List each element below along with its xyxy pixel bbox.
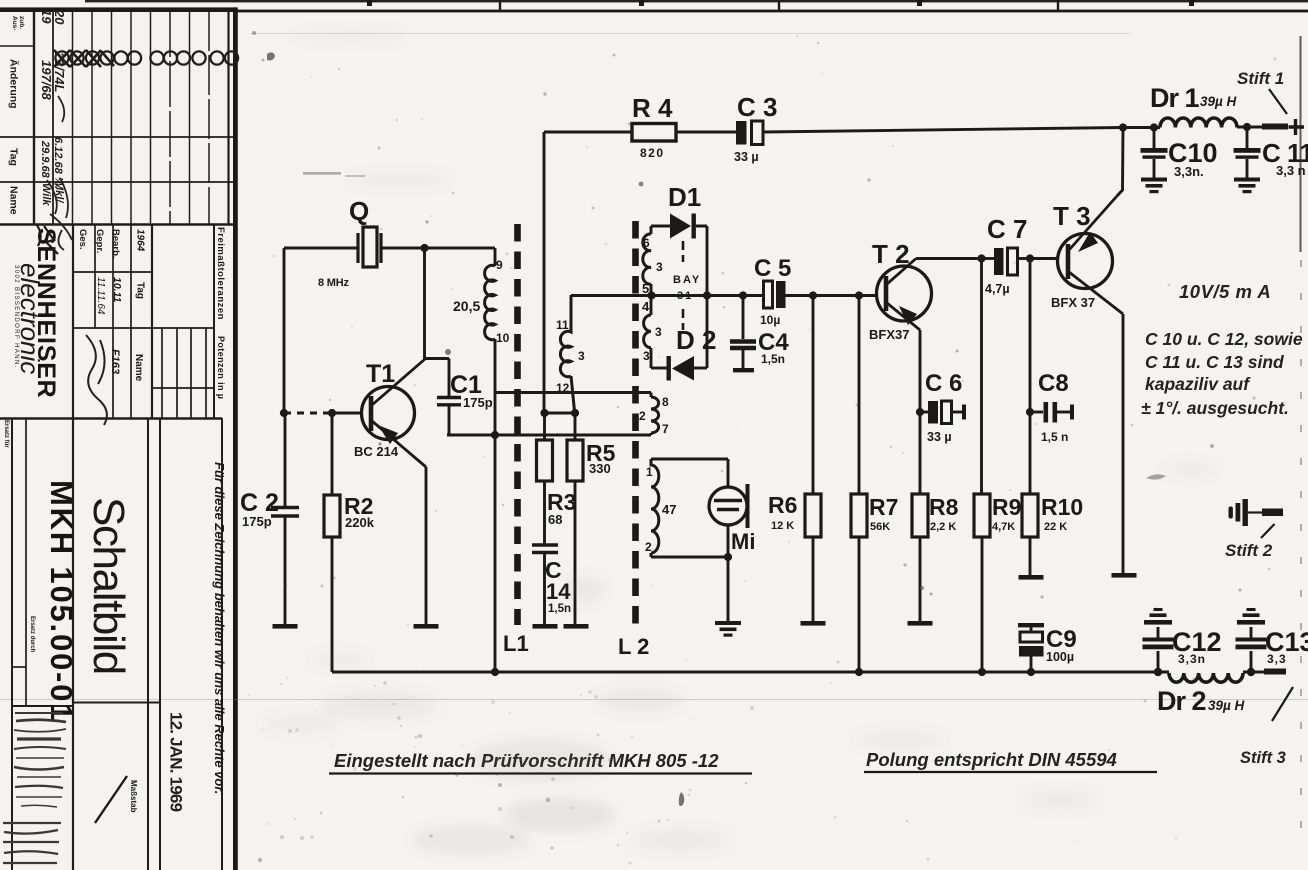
svg-text:197/68: 197/68 — [39, 60, 54, 101]
svg-text:D 2: D 2 — [676, 325, 716, 355]
capacitor C3 — [736, 121, 763, 145]
capacitor C7 — [981, 248, 1029, 275]
svg-text:3002 BISSENDORF HANN.: 3002 BISSENDORF HANN. — [13, 265, 19, 369]
svg-text:R10: R10 — [1041, 494, 1083, 520]
resistor R2 — [324, 413, 340, 672]
wire T3 collector to rail — [1117, 128, 1123, 197]
node R5 top — [571, 409, 579, 417]
svg-text:BFX37: BFX37 — [869, 327, 909, 342]
svg-text:1,5n: 1,5n — [548, 603, 571, 615]
svg-text:3: 3 — [655, 325, 662, 339]
svg-text:BC 214: BC 214 — [354, 444, 399, 459]
scribble area bottom-left — [3, 713, 66, 863]
svg-text:12. JAN. 1969: 12. JAN. 1969 — [167, 712, 186, 812]
svg-text:F163: F163 — [109, 349, 121, 374]
wire D1 to right post — [696, 226, 707, 368]
chassis bar R5 — [564, 624, 589, 629]
svg-text:Tag: Tag — [135, 282, 146, 299]
capacitor C12 — [1143, 608, 1174, 672]
svg-text:4,7µ: 4,7µ — [985, 282, 1010, 296]
svg-text:Stift 2: Stift 2 — [1225, 541, 1273, 560]
svg-text:Freimaßtoleranzen: Freimaßtoleranzen — [215, 227, 226, 320]
capacitor C2 — [271, 413, 299, 624]
L2 core — [632, 221, 639, 625]
resistor R3 — [537, 413, 553, 544]
svg-text:zub.: zub. — [18, 16, 25, 29]
node T3 collector rail — [1119, 123, 1127, 131]
svg-text:19: 19 — [39, 9, 54, 24]
L1 secondary coil 11-3-12 — [560, 295, 574, 411]
node C7 left — [977, 254, 985, 262]
tap segment — [650, 284, 653, 315]
svg-text:47: 47 — [662, 502, 676, 517]
resistor R9 — [974, 494, 990, 672]
svg-text:10V/5 m A: 10V/5 m A — [1179, 281, 1271, 302]
crystal Q — [358, 227, 381, 267]
capacitor C4 — [730, 295, 756, 368]
chassis bar C2 — [273, 624, 298, 629]
winding 6-3-5 column top wire — [650, 226, 653, 234]
wire C1 bottom — [447, 405, 651, 435]
svg-text:Gepr.: Gepr. — [94, 229, 105, 253]
svg-text:T1: T1 — [366, 360, 395, 388]
wire diode bottom — [651, 367, 667, 370]
chassis bar C14 — [533, 624, 558, 629]
winding 4-3-3 — [644, 315, 651, 368]
winding 1-2 (47) — [651, 459, 659, 557]
svg-text:Änderung: Änderung — [8, 59, 21, 109]
svg-text:R 4: R 4 — [632, 93, 673, 123]
svg-text:Mi: Mi — [731, 529, 755, 554]
svg-text:11.11.64: 11.11.64 — [95, 277, 106, 315]
svg-text:3,3 n: 3,3 n — [1276, 163, 1306, 178]
node C6 — [916, 408, 924, 416]
svg-text:Name: Name — [8, 186, 20, 215]
svg-text:C 2: C 2 — [240, 489, 279, 517]
svg-text:11: 11 — [556, 318, 569, 332]
diode D2 — [667, 356, 695, 381]
node rail — [491, 668, 499, 676]
wire D2 to post — [694, 367, 707, 370]
svg-text:33 µ: 33 µ — [734, 150, 759, 164]
svg-text:Ersatz für: Ersatz für — [3, 420, 9, 448]
svg-text:3: 3 — [643, 349, 650, 363]
capacitor C9 — [1018, 623, 1044, 672]
wire collector jog to C1 — [425, 359, 449, 398]
ground C10 — [1141, 178, 1167, 194]
svg-text:T 3: T 3 — [1053, 201, 1091, 231]
node R7 top — [855, 291, 863, 299]
resistor R4 — [632, 124, 676, 142]
transistor T1 — [362, 359, 427, 467]
svg-text:23/74L: 23/74L — [52, 51, 67, 93]
winding 8-7 — [651, 397, 659, 433]
change-log table horizontals — [0, 136, 233, 138]
svg-text:Bearb.: Bearb. — [110, 229, 121, 259]
svg-text:Für diese Zeichnung behalten w: Für diese Zeichnung behalten wir uns all… — [212, 462, 227, 794]
svg-text:R8: R8 — [929, 494, 959, 520]
node Q right — [420, 244, 428, 252]
svg-text:100µ: 100µ — [1046, 650, 1074, 664]
wire base — [332, 412, 363, 415]
svg-text:7: 7 — [662, 422, 669, 436]
wire T2 collector — [916, 257, 981, 260]
svg-text:1964: 1964 — [135, 229, 146, 252]
wire diode top — [651, 225, 670, 228]
svg-text:4,7K: 4,7K — [992, 521, 1015, 533]
svg-text:2,2 K: 2,2 K — [930, 521, 956, 533]
svg-text:C 10 u. C 12, sowie: C 10 u. C 12, sowie — [1145, 329, 1303, 349]
capacitor C8 — [1030, 402, 1074, 423]
svg-text:Potenzen in µ: Potenzen in µ — [216, 336, 226, 399]
fine log columns — [52, 11, 54, 224]
svg-text:3: 3 — [578, 349, 585, 363]
svg-text:Ersatz durch: Ersatz durch — [29, 616, 35, 653]
resistor R8 — [912, 494, 928, 621]
svg-text:Aus-: Aus- — [11, 16, 18, 30]
wire Q left to base node — [284, 248, 358, 412]
svg-text:20,5: 20,5 — [453, 298, 480, 314]
chassis bar C4 — [733, 368, 754, 372]
faint scan artifact lines — [0, 699, 1308, 701]
label column divider — [33, 11, 35, 224]
svg-text:D1: D1 — [668, 182, 701, 212]
svg-text:Stift 1: Stift 1 — [1237, 69, 1284, 88]
svg-text:BFX 37: BFX 37 — [1051, 295, 1095, 310]
svg-text:2: 2 — [639, 409, 646, 423]
wire signal line y295 — [571, 294, 877, 297]
node C11 top — [1243, 123, 1251, 131]
L1 core — [514, 224, 521, 625]
svg-text:3,3n: 3,3n — [1178, 652, 1206, 666]
svg-text:R9: R9 — [992, 494, 1021, 520]
wire top feed vertical — [544, 132, 632, 412]
capacitor C14 — [532, 545, 558, 624]
svg-text:MKH 105.00-01: MKH 105.00-01 — [44, 480, 79, 722]
capacitor C1 — [437, 398, 461, 405]
chassis bar T1 emitter — [414, 624, 439, 629]
svg-text:Polung entspricht DIN 45594: Polung entspricht DIN 45594 — [866, 749, 1117, 770]
wire R10 column — [1029, 259, 1032, 495]
node C10 top — [1150, 123, 1158, 131]
svg-text:56K: 56K — [870, 521, 890, 533]
svg-text:175p: 175p — [242, 514, 272, 529]
chassis bar R8 — [908, 621, 933, 626]
node R3 top — [540, 409, 548, 417]
capacitor C5 — [764, 281, 786, 308]
capacitor C13 — [1236, 608, 1267, 672]
svg-text:C 11 u. C 13 sind: C 11 u. C 13 sind — [1145, 352, 1284, 372]
svg-text:220k: 220k — [345, 515, 375, 530]
chassis bar R10 — [1019, 575, 1044, 580]
wire T2 emitter — [919, 330, 922, 494]
terminal Stift 1 — [1262, 124, 1288, 130]
svg-text:C 7: C 7 — [987, 214, 1027, 244]
winding 6-3-5 — [643, 234, 651, 284]
node C1 bottom — [491, 431, 499, 439]
wire coil bottom down to ground rail — [494, 339, 497, 672]
chassis bar T3 emitter — [1112, 573, 1137, 578]
svg-text:Stift 3: Stift 3 — [1240, 749, 1286, 767]
svg-text:33 µ: 33 µ — [927, 430, 952, 444]
transistor T2 — [877, 259, 932, 331]
svg-text:C9: C9 — [1046, 626, 1077, 653]
diode D1 — [670, 214, 696, 239]
inductor Dr1 — [1160, 118, 1237, 128]
svg-text:Ges.: Ges. — [77, 229, 88, 250]
svg-text:39µ H: 39µ H — [1200, 94, 1237, 109]
svg-text:2: 2 — [645, 540, 652, 554]
wire dashed base link — [284, 412, 331, 415]
dashes between diodes — [682, 241, 685, 330]
scan noise — [252, 31, 1242, 862]
svg-text:8 MHz: 8 MHz — [318, 277, 349, 289]
svg-text:C8: C8 — [1038, 370, 1069, 397]
svg-text:kapaziliv auf: kapaziliv auf — [1145, 374, 1251, 394]
inductor 9-10 (20,5) — [485, 265, 495, 339]
svg-text:68: 68 — [548, 512, 562, 527]
wire T3 base — [1030, 257, 1058, 260]
node R7 rail — [855, 668, 863, 676]
resistor R10 — [1022, 494, 1038, 575]
node R6 top — [809, 291, 817, 299]
svg-text:BAY: BAY — [673, 274, 701, 286]
terminal Stift 3 — [1264, 669, 1286, 675]
svg-text:8: 8 — [662, 395, 669, 409]
svg-text:Name: Name — [133, 354, 144, 382]
wire transformer link lower (C1 to 7) — [650, 433, 653, 435]
leader Stift 3 — [1272, 687, 1293, 721]
svg-text:3,3: 3,3 — [1267, 652, 1287, 666]
svg-text:1,5 n: 1,5 n — [1041, 430, 1068, 444]
capacitor C10 — [1141, 128, 1168, 179]
terminal Stift 2 — [1229, 499, 1284, 526]
svg-text:R6: R6 — [768, 492, 797, 518]
wire T3 emitter — [1122, 314, 1125, 573]
svg-text:Dr 1: Dr 1 — [1150, 83, 1200, 113]
svg-text:12 K: 12 K — [771, 520, 794, 532]
handwritten log entries — [39, 9, 67, 206]
node diode mid — [703, 291, 711, 299]
svg-text:330: 330 — [589, 461, 611, 476]
leader Stift 1 — [1269, 89, 1287, 114]
left label column texts (rotated) — [3, 9, 227, 863]
leader Stift 2 — [1261, 524, 1275, 538]
wire T1 emitter to chassis bar — [425, 467, 428, 624]
svg-text:175p: 175p — [463, 395, 493, 410]
svg-text:L 2: L 2 — [618, 634, 649, 659]
svg-text:1: 1 — [646, 465, 653, 479]
capacitor C11 — [1234, 127, 1261, 178]
capacitor C6 — [920, 401, 966, 424]
node R2 top — [328, 409, 336, 417]
svg-text:6: 6 — [643, 236, 650, 250]
svg-text:Q: Q — [349, 196, 369, 226]
svg-text:Schaltbild: Schaltbild — [84, 497, 133, 674]
svg-text:3,3n.: 3,3n. — [1174, 164, 1204, 179]
svg-text:10.11: 10.11 — [111, 277, 123, 303]
inductor Dr2 — [1169, 673, 1243, 682]
chassis bar R6 — [801, 621, 826, 626]
node mic bottom — [724, 553, 732, 561]
node C9 rail — [1027, 668, 1035, 676]
wire top supply rail — [676, 127, 1262, 132]
node C7 right / R10 top — [1026, 254, 1034, 262]
resistor R5 — [567, 413, 583, 624]
node tap 5-4 — [647, 291, 655, 299]
svg-text:29.9.68: 29.9.68 — [39, 140, 51, 179]
lower block — [0, 417, 222, 419]
node C8 — [1026, 408, 1034, 416]
svg-text:C 3: C 3 — [737, 92, 777, 122]
svg-text:Dr 2: Dr 2 — [1157, 686, 1206, 716]
note selection text — [1141, 329, 1303, 418]
wire R9 column — [980, 259, 983, 495]
svg-text:10: 10 — [496, 331, 510, 345]
svg-text:C 5: C 5 — [754, 255, 791, 282]
wire transformer link upper (10 to 8) — [495, 393, 651, 398]
svg-text:3: 3 — [656, 260, 663, 274]
svg-text:Tag: Tag — [8, 148, 20, 166]
svg-text:22 K: 22 K — [1044, 521, 1067, 533]
svg-text:± 1°/. ausgesucht.: ± 1°/. ausgesucht. — [1141, 398, 1289, 418]
svg-text:Maßstab: Maßstab — [129, 780, 138, 813]
svg-text:T 2: T 2 — [872, 239, 910, 269]
svg-text:39µ H: 39µ H — [1208, 698, 1245, 713]
resistor R6 — [805, 295, 821, 621]
wire mic loop — [651, 459, 728, 621]
svg-text:820: 820 — [640, 146, 665, 160]
transistor T3 — [1058, 196, 1124, 314]
wire ground rail — [332, 671, 1266, 674]
svg-text:C 6: C 6 — [925, 370, 962, 397]
ground Mi — [715, 621, 741, 637]
ground C11 — [1234, 178, 1260, 194]
svg-text:L1: L1 — [503, 631, 529, 656]
resistor R7 — [851, 295, 867, 672]
node R9 rail — [978, 668, 986, 676]
node base-left — [280, 409, 288, 417]
bearb table — [72, 224, 74, 418]
punched-hole circle row — [54, 50, 238, 67]
wire Q right to collector node — [381, 248, 495, 359]
svg-text:20: 20 — [52, 9, 67, 25]
microphone Mi — [709, 484, 748, 528]
node C13 rail — [1247, 668, 1255, 676]
node C4 — [739, 291, 747, 299]
wire link R3-R5 node — [544, 412, 575, 415]
svg-text:4: 4 — [642, 299, 650, 314]
svg-text:9: 9 — [496, 258, 503, 272]
svg-text:R7: R7 — [869, 494, 898, 520]
svg-text:10µ: 10µ — [760, 313, 780, 327]
svg-text:1,5n: 1,5n — [761, 352, 785, 366]
node C12 rail — [1154, 668, 1162, 676]
